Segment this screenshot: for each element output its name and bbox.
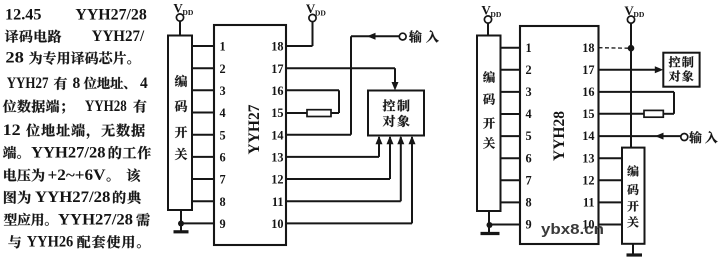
encoder switch box S2 (bian ma kai guan)	[477, 36, 501, 212]
svg-text:5: 5	[220, 128, 226, 142]
wire node B to U2 pin 9	[489, 224, 520, 226]
svg-text:12: 12	[582, 173, 594, 187]
wire U1 pin 17 to K1 top (strobe)	[286, 68, 395, 83]
wire S1 bottom to node A	[180, 210, 182, 224]
wire U1 pin 11 to K1	[286, 137, 401, 201]
input terminal (shu ru, circuit 2)	[681, 131, 718, 143]
wire U2 pin 17 to K2 (strobe)	[599, 69, 656, 71]
wire U1 pin 16 loop	[286, 90, 339, 113]
svg-text:5: 5	[526, 129, 532, 143]
svg-text:YYH26: YYH26	[27, 234, 74, 251]
VDD rail wire down to S3 top	[630, 23, 632, 147]
wire U1 pin 12 to K1	[286, 137, 390, 179]
wire R2 to pin 16 loop	[663, 113, 674, 115]
svg-text:8: 8	[73, 75, 81, 92]
svg-text:8: 8	[526, 196, 532, 210]
arrowhead on input wire (toward U2)	[655, 133, 664, 140]
wire U2 pin 11 to S3	[599, 201, 623, 203]
svg-text:DD: DD	[633, 10, 644, 19]
svg-text:YYH27/28: YYH27/28	[58, 211, 133, 228]
wire U2 pin 13 to S3	[599, 157, 623, 159]
svg-text:13: 13	[271, 151, 283, 165]
arrowhead pin12 into K1	[387, 136, 394, 145]
svg-text:16: 16	[582, 85, 594, 99]
encoder switch box S3 (bian ma kai guan, right)	[622, 148, 645, 244]
svg-text:14: 14	[271, 128, 283, 142]
svg-text:6: 6	[220, 151, 226, 165]
control object box K1 (kong zhi dui xiang)	[368, 91, 424, 136]
svg-text:12.45: 12.45	[5, 6, 42, 23]
svg-text:17: 17	[582, 63, 594, 77]
svg-text:DD: DD	[182, 8, 193, 17]
arrowhead into K1 top	[392, 82, 399, 91]
node B junction (pin 9 / ground)	[487, 222, 493, 228]
wire S3 bottom to ground	[632, 244, 634, 255]
ground (circuit 1)	[174, 224, 189, 232]
wire S2 bottom to node B	[488, 211, 490, 225]
arrowhead pin10 into K1	[409, 136, 416, 145]
wire U1 pin 13 to K1	[286, 137, 379, 157]
power terminal VDD (S1 supply, circuit 1)	[173, 1, 193, 21]
svg-text:4: 4	[526, 107, 532, 121]
arrowhead on input wire (toward U1)	[367, 33, 376, 40]
wire U2 pin 18 to VDD rail (dashed in scan)	[599, 47, 629, 50]
resistor R1 (oscillator)	[307, 110, 331, 117]
wires S1 outputs to U1 pins 1-8	[192, 46, 214, 201]
wire U1 pin 10 to K1	[286, 137, 412, 223]
svg-text:18: 18	[582, 41, 594, 55]
power terminal VDD (U1 pin 18, circuit 1)	[306, 1, 326, 21]
svg-text:15: 15	[582, 107, 594, 121]
svg-text:ybx8.cn: ybx8.cn	[541, 222, 604, 238]
wire U2 pin 10 to S3	[599, 224, 623, 226]
resistor R2 (oscillator)	[644, 110, 663, 117]
svg-text:8: 8	[220, 195, 226, 209]
svg-text:12: 12	[271, 173, 283, 187]
svg-text:7: 7	[220, 173, 226, 187]
svg-text:YYH27: YYH27	[246, 104, 263, 154]
watermark ybx8.cn	[541, 222, 604, 238]
svg-text:10: 10	[271, 217, 283, 231]
svg-text:7: 7	[526, 173, 532, 187]
svg-text:12: 12	[3, 122, 21, 139]
svg-text:11: 11	[272, 195, 284, 209]
svg-text:18: 18	[271, 40, 283, 54]
svg-text:YYH27/: YYH27/	[92, 28, 145, 45]
svg-text:17: 17	[271, 62, 283, 76]
power terminal VDD (circuit 2 right)	[624, 3, 644, 23]
svg-text:DD: DD	[315, 8, 326, 17]
wire R1 to pin 16 loop	[331, 112, 339, 114]
svg-text:4: 4	[220, 106, 226, 120]
svg-text:14: 14	[582, 129, 594, 143]
svg-text:YYH27/28: YYH27/28	[35, 189, 111, 206]
svg-text:1: 1	[526, 41, 532, 55]
ground (circuit 2 left)	[481, 225, 500, 234]
wire U2 pin 16 loop	[599, 92, 675, 114]
svg-text:28: 28	[5, 50, 24, 67]
wire VDD to S1 top	[179, 21, 181, 36]
svg-text:2: 2	[220, 62, 226, 76]
svg-text:15: 15	[271, 106, 283, 120]
wire U1 pin 15 to R1	[286, 112, 307, 114]
node A junction (pin 9 / ground)	[178, 221, 184, 227]
svg-text:4: 4	[140, 75, 148, 92]
svg-text:YYH27: YYH27	[7, 75, 49, 92]
svg-text:9: 9	[220, 217, 226, 231]
IC U2 YYH28 with pin numbers 1-9 and 18-10	[520, 26, 599, 244]
control object box K2 (kong zhi dui xiang)	[663, 53, 699, 87]
IC U1 YYH27 with pin numbers 1-9 and 18-10	[214, 25, 286, 245]
input terminal (shu ru, circuit 1)	[399, 30, 439, 43]
wires S2 outputs to U2 pins 1-8	[501, 48, 521, 203]
ground (circuit 2 right)	[627, 253, 643, 256]
svg-text:13: 13	[582, 151, 594, 165]
arrowhead pin11 into K1	[397, 136, 404, 145]
wire U1 pin 18 to VDD	[286, 22, 313, 47]
wire U2 pin 12 to S3	[599, 179, 623, 181]
svg-text:+2~+6V: +2~+6V	[48, 167, 107, 184]
svg-text:DD: DD	[490, 10, 501, 19]
arrowhead pin13 into K1	[376, 136, 383, 145]
svg-text:YYH27/28: YYH27/28	[31, 144, 106, 161]
svg-text:9: 9	[526, 218, 532, 232]
node C junction (pin 18 / VDD rail)	[628, 45, 635, 52]
wire U1 pin 14 to input terminal	[286, 36, 399, 134]
svg-text:3: 3	[526, 85, 532, 99]
svg-text:3: 3	[220, 84, 226, 98]
svg-text:2: 2	[526, 63, 532, 77]
svg-text:6: 6	[526, 151, 532, 165]
encoder switch box S1 (bian ma kai guan)	[168, 36, 192, 211]
wire U2 pin 15 to R2	[599, 113, 645, 115]
svg-text:1: 1	[220, 40, 226, 54]
caption text block	[3, 6, 151, 250]
svg-text:YYH28: YYH28	[85, 98, 127, 115]
svg-text:16: 16	[271, 84, 283, 98]
svg-text:11: 11	[583, 196, 595, 210]
svg-text:YYH27/28: YYH27/28	[75, 6, 146, 23]
power terminal VDD (S2 supply, circuit 2)	[481, 3, 501, 23]
svg-text:YYH28: YYH28	[551, 111, 568, 161]
arrowhead into K2 left	[655, 66, 664, 73]
wire VDD to S2 top	[487, 23, 489, 36]
wire U2 pin 14 to input terminal	[599, 135, 681, 137]
wire node A to U1 pin 9	[181, 222, 214, 224]
